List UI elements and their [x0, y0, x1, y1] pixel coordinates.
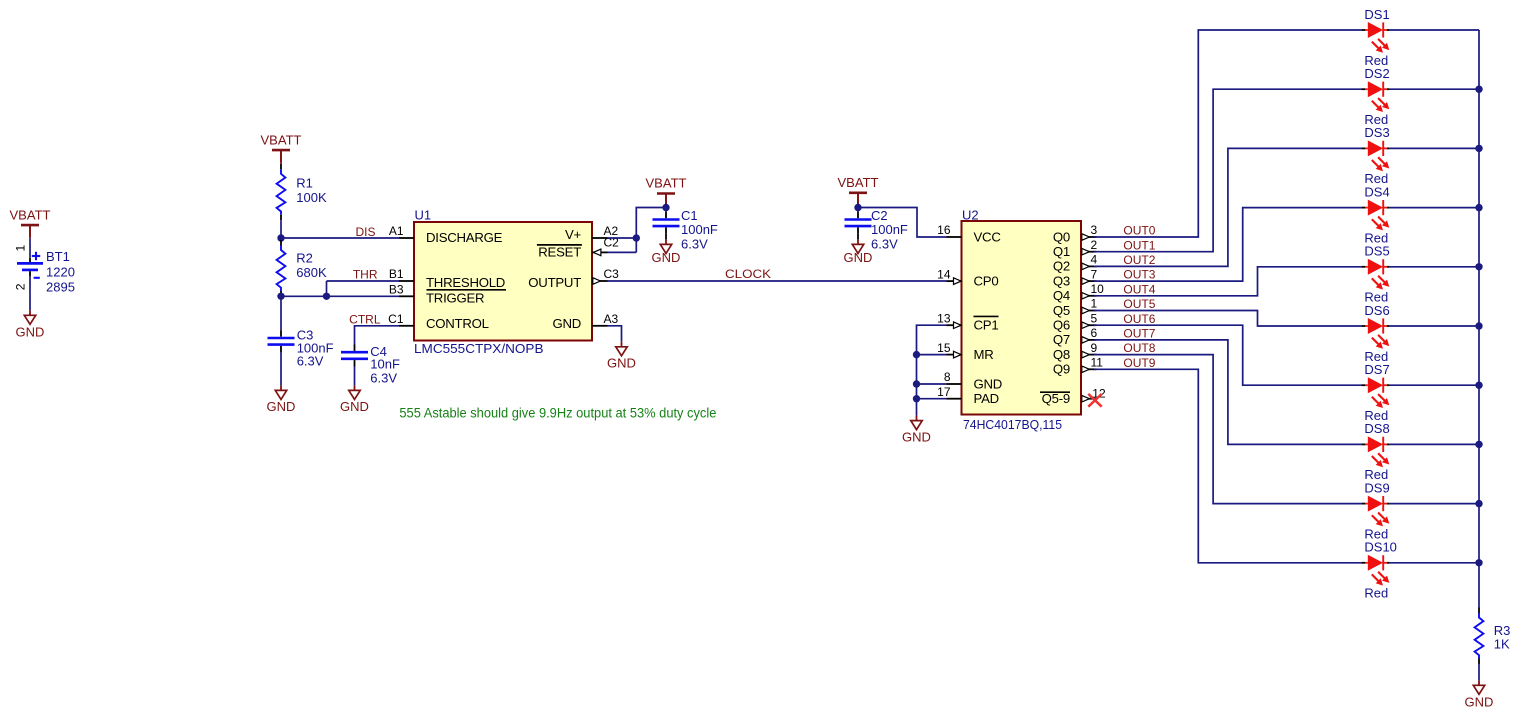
wire OUT9: [1094, 369, 1361, 563]
ground (C4): [340, 385, 369, 414]
power port VBATT (C1): [646, 176, 687, 206]
wire: [1390, 29, 1479, 31]
node rail/DS6 junction: [1475, 322, 1482, 329]
LED DS1: [1361, 7, 1389, 68]
svg-text:GND: GND: [902, 429, 931, 444]
wire: [29, 225, 31, 239]
svg-text:CP1: CP1: [974, 318, 999, 333]
pin B1 THRESHOLD (U1): [389, 267, 505, 290]
capacitor C1: [653, 208, 718, 251]
pin 4 Q2 (U2): [1053, 253, 1098, 274]
svg-text:10: 10: [1091, 282, 1105, 296]
LED DS8: [1361, 421, 1389, 482]
node rail/DS2 junction: [1475, 86, 1482, 93]
svg-text:100nF: 100nF: [871, 222, 908, 237]
svg-text:CLOCK: CLOCK: [725, 267, 771, 281]
node rail/DS8 junction: [1475, 441, 1482, 448]
svg-text:VBATT: VBATT: [10, 207, 51, 222]
svg-text:DS3: DS3: [1364, 125, 1389, 140]
wire: [1390, 325, 1479, 327]
svg-text:14: 14: [937, 267, 951, 281]
pin 7 Q3 (U2): [1053, 267, 1098, 288]
svg-text:VBATT: VBATT: [261, 132, 302, 147]
wire: [280, 150, 282, 164]
svg-text:OUT7: OUT7: [1123, 327, 1155, 341]
ground (A3): [607, 342, 636, 371]
svg-text:2895: 2895: [46, 280, 75, 295]
node VBATT/C1 junction: [662, 204, 669, 211]
svg-text:6.3V: 6.3V: [871, 236, 898, 251]
svg-text:OUT5: OUT5: [1123, 297, 1155, 311]
svg-text:OUT1: OUT1: [1123, 238, 1155, 252]
svg-text:LMC555CTPX/NOPB: LMC555CTPX/NOPB: [414, 341, 544, 356]
wire OUT3: [1094, 208, 1361, 282]
svg-text:2: 2: [1091, 238, 1098, 252]
wire: [354, 366, 356, 385]
svg-text:R3: R3: [1494, 623, 1511, 638]
pin 6 Q7 (U2): [1053, 326, 1098, 347]
node A2 junction: [633, 234, 640, 241]
svg-text:OUTPUT: OUTPUT: [528, 275, 581, 290]
pin 8 GND (U2): [944, 370, 1002, 391]
power port VBATT (R1): [261, 132, 302, 162]
svg-text:OUT6: OUT6: [1123, 312, 1155, 326]
pin 17 PAD (U2): [937, 385, 999, 406]
svg-text:Q5-9: Q5-9: [1042, 391, 1070, 406]
svg-text:7: 7: [1091, 267, 1098, 281]
power port VBATT (C2): [838, 175, 879, 205]
pin 2 Q1 (U2): [1053, 238, 1098, 259]
svg-text:2: 2: [13, 283, 27, 290]
svg-text:1220: 1220: [46, 265, 75, 280]
svg-text:Q8: Q8: [1053, 347, 1070, 362]
op-amp/timer U1 LMC555 body: [414, 207, 592, 356]
LED DS6: [1361, 303, 1389, 364]
node R2/C3/B3 junction: [277, 293, 284, 300]
pin A1 DISCHARGE (U1): [389, 224, 503, 245]
svg-text:Q9: Q9: [1053, 362, 1070, 377]
svg-text:4: 4: [1091, 253, 1098, 267]
wire LED cathode rail: [1478, 30, 1480, 608]
wire V+ net: [608, 237, 637, 239]
ground (C3): [267, 385, 296, 414]
svg-text:Q7: Q7: [1053, 332, 1070, 347]
capacitor C2: [845, 208, 908, 251]
svg-text:1: 1: [1091, 297, 1098, 311]
svg-text:C1: C1: [681, 208, 698, 223]
wire TRIGGER net: [281, 295, 399, 297]
svg-text:OUT3: OUT3: [1123, 268, 1155, 282]
svg-text:GND: GND: [652, 250, 681, 265]
wire OUT0: [1094, 30, 1361, 237]
svg-text:DS2: DS2: [1364, 66, 1389, 81]
svg-text:GND: GND: [844, 250, 873, 265]
pin C2 RESET (U1): [537, 236, 619, 260]
svg-text:VBATT: VBATT: [646, 176, 687, 191]
svg-text:BT1: BT1: [46, 249, 70, 264]
svg-text:DS10: DS10: [1364, 540, 1397, 555]
pin 5 Q6 (U2): [1053, 311, 1098, 332]
svg-text:OUT9: OUT9: [1123, 356, 1155, 370]
LED DS2: [1361, 66, 1389, 127]
svg-text:R1: R1: [296, 175, 313, 190]
svg-text:Q0: Q0: [1053, 229, 1070, 244]
svg-text:GND: GND: [1465, 695, 1494, 710]
svg-text:Q2: Q2: [1053, 259, 1070, 274]
svg-text:74HC4017BQ,115: 74HC4017BQ,115: [963, 417, 1062, 432]
pin C1 CONTROL (U1): [388, 312, 489, 331]
wire OUT5: [1094, 311, 1361, 327]
node GND junction: [913, 380, 920, 387]
svg-text:U2: U2: [962, 207, 979, 222]
wire: [1390, 443, 1479, 445]
wire: [1478, 664, 1480, 680]
wire: [1390, 147, 1479, 149]
node rail/DS4 junction: [1475, 204, 1482, 211]
wire OUT7: [1094, 340, 1361, 445]
svg-text:GND: GND: [267, 399, 296, 414]
svg-text:RESET: RESET: [538, 245, 581, 260]
wire OUT4: [1094, 267, 1361, 296]
resistor R2: [277, 240, 327, 297]
svg-text:100K: 100K: [296, 190, 327, 205]
svg-text:1K: 1K: [1494, 637, 1510, 652]
svg-text:VCC: VCC: [974, 229, 1002, 244]
LED DS10: [1361, 540, 1397, 601]
svg-text:V+: V+: [565, 227, 582, 242]
node rail/DS10 junction: [1475, 559, 1482, 566]
wire OUT8: [1094, 355, 1361, 504]
wire A3 to ground: [608, 326, 622, 342]
pin A3 GND (U1): [552, 312, 618, 331]
svg-text:6.3V: 6.3V: [297, 354, 324, 369]
svg-text:C1: C1: [388, 312, 404, 326]
wire THR: [326, 281, 328, 296]
svg-text:OUT4: OUT4: [1123, 282, 1155, 296]
ground (C1): [652, 239, 681, 265]
pin 15 MR (U2): [937, 341, 993, 362]
pin 14 CP0 (U2): [937, 267, 998, 288]
wire OUT6: [1094, 325, 1361, 385]
power port VBATT (battery): [10, 207, 51, 237]
battery BT1: [13, 245, 75, 295]
svg-text:DS8: DS8: [1364, 421, 1389, 436]
svg-text:6.3V: 6.3V: [681, 236, 708, 251]
svg-text:GND: GND: [16, 324, 45, 339]
node DIS junction: [277, 234, 284, 241]
svg-text:Q6: Q6: [1053, 318, 1070, 333]
node VBATT/C2 junction: [854, 204, 861, 211]
pin 16 VCC (U2): [937, 223, 1001, 244]
wire: [280, 352, 282, 385]
svg-text:5: 5: [1091, 311, 1098, 325]
pin A2 V+ (U1): [565, 224, 619, 242]
pin 1 Q5 (U2): [1053, 297, 1098, 318]
svg-text:DS6: DS6: [1364, 303, 1389, 318]
overline CP1: [974, 315, 999, 317]
svg-text:B1: B1: [389, 267, 404, 281]
overline THRESHOLD: [427, 289, 507, 291]
wire: [1390, 207, 1479, 209]
svg-text:TRIGGER: TRIGGER: [426, 290, 484, 305]
svg-text:9: 9: [1091, 341, 1098, 355]
svg-text:VBATT: VBATT: [838, 175, 879, 190]
svg-text:100nF: 100nF: [681, 222, 718, 237]
wire DIS: [281, 237, 399, 239]
pin 12 Q5-9 (U2): [1040, 386, 1106, 406]
LED DS9: [1361, 480, 1389, 541]
svg-text:11: 11: [1091, 356, 1104, 370]
LED DS4: [1361, 184, 1389, 245]
node rail/DS9 junction: [1475, 500, 1482, 507]
node rail/DS7 junction: [1475, 382, 1482, 389]
pin B3 TRIGGER (U1): [389, 283, 485, 306]
svg-text:555 Astable should give 9.9Hz: 555 Astable should give 9.9Hz output at …: [399, 406, 716, 421]
svg-text:THRESHOLD: THRESHOLD: [426, 275, 505, 290]
svg-text:CTRL: CTRL: [349, 312, 381, 326]
svg-text:C2: C2: [871, 208, 888, 223]
wire OUT2: [1094, 148, 1361, 266]
svg-text:DS1: DS1: [1364, 7, 1389, 22]
svg-text:A3: A3: [604, 312, 619, 326]
pin 9 Q8 (U2): [1053, 341, 1098, 362]
wire: [29, 277, 31, 311]
wire: [1390, 562, 1479, 564]
svg-text:GND: GND: [552, 316, 581, 331]
svg-text:1: 1: [13, 245, 27, 252]
svg-text:GND: GND: [340, 399, 369, 414]
pin C3 OUTPUT (U1): [528, 267, 619, 290]
svg-text:Q5: Q5: [1053, 303, 1070, 318]
resistor R1: [277, 164, 327, 221]
no-ERC marker (pin 12): [1088, 394, 1101, 407]
ground (C2): [844, 239, 873, 265]
svg-text:GND: GND: [607, 356, 636, 371]
svg-text:6: 6: [1091, 326, 1098, 340]
wire OUT1: [1094, 89, 1361, 252]
svg-text:Q3: Q3: [1053, 273, 1070, 288]
node MR junction: [913, 351, 920, 358]
wire VCC net: [858, 208, 947, 238]
svg-text:OUT0: OUT0: [1123, 224, 1155, 238]
svg-text:DS5: DS5: [1364, 244, 1389, 259]
svg-text:8: 8: [944, 370, 951, 384]
svg-text:680K: 680K: [296, 265, 327, 280]
node rail/DS5 junction: [1475, 263, 1482, 270]
pin 10 Q4 (U2): [1053, 282, 1104, 303]
svg-text:16: 16: [937, 223, 951, 237]
svg-text:OUT8: OUT8: [1123, 341, 1155, 355]
svg-text:Q1: Q1: [1053, 244, 1070, 259]
counter U2 74HC4017 body: [962, 207, 1082, 432]
pin 11 Q9 (U2): [1053, 356, 1103, 377]
wire: [280, 296, 282, 330]
capacitor C4: [341, 344, 400, 385]
node PAD junction: [913, 395, 920, 402]
svg-text:DS4: DS4: [1364, 184, 1389, 199]
wire: [665, 194, 667, 205]
svg-text:MR: MR: [974, 347, 994, 362]
pin 13 CP1 (U2): [937, 311, 998, 332]
ground (R3): [1465, 680, 1494, 709]
svg-text:GND: GND: [974, 376, 1003, 391]
svg-text:CONTROL: CONTROL: [426, 316, 489, 331]
svg-text:PAD: PAD: [974, 391, 999, 406]
LED DS5: [1361, 244, 1389, 305]
wire: [1390, 503, 1479, 505]
svg-text:10nF: 10nF: [370, 357, 400, 372]
wire: [857, 193, 859, 205]
svg-text:R2: R2: [296, 250, 313, 265]
wire: [1390, 384, 1479, 386]
wire CTRL: [355, 326, 400, 345]
ground (battery): [16, 310, 45, 339]
svg-text:DISCHARGE: DISCHARGE: [426, 230, 503, 245]
svg-text:C3: C3: [604, 267, 620, 281]
svg-text:Red: Red: [1364, 586, 1388, 601]
wire: [280, 220, 282, 240]
svg-text:B3: B3: [389, 283, 404, 297]
wire: [1390, 266, 1479, 268]
svg-text:THR: THR: [353, 267, 378, 281]
wire: [1390, 88, 1479, 90]
svg-text:17: 17: [937, 385, 951, 399]
resistor R3: [1475, 608, 1511, 665]
svg-text:CP0: CP0: [974, 273, 999, 288]
svg-text:DS7: DS7: [1364, 362, 1389, 377]
svg-text:DIS: DIS: [355, 225, 375, 239]
pin 3 Q0 (U2): [1053, 223, 1098, 244]
svg-text:6.3V: 6.3V: [370, 370, 397, 385]
wire CP1/MR/GND/PAD bus: [917, 325, 947, 415]
svg-text:U1: U1: [415, 207, 432, 222]
node rail/DS3 junction: [1475, 145, 1482, 152]
svg-text:OUT2: OUT2: [1123, 253, 1155, 267]
svg-text:15: 15: [937, 341, 951, 355]
LED DS7: [1361, 362, 1389, 423]
svg-text:3: 3: [1091, 223, 1098, 237]
svg-text:Q4: Q4: [1053, 288, 1070, 303]
wire CLOCK: [608, 280, 947, 282]
svg-text:A1: A1: [389, 224, 404, 238]
svg-text:13: 13: [937, 311, 951, 325]
svg-text:DS9: DS9: [1364, 480, 1389, 495]
ground (U2): [902, 416, 931, 445]
LED DS3: [1361, 125, 1389, 186]
capacitor C3: [268, 327, 334, 368]
node B1/B3 junction: [323, 293, 330, 300]
